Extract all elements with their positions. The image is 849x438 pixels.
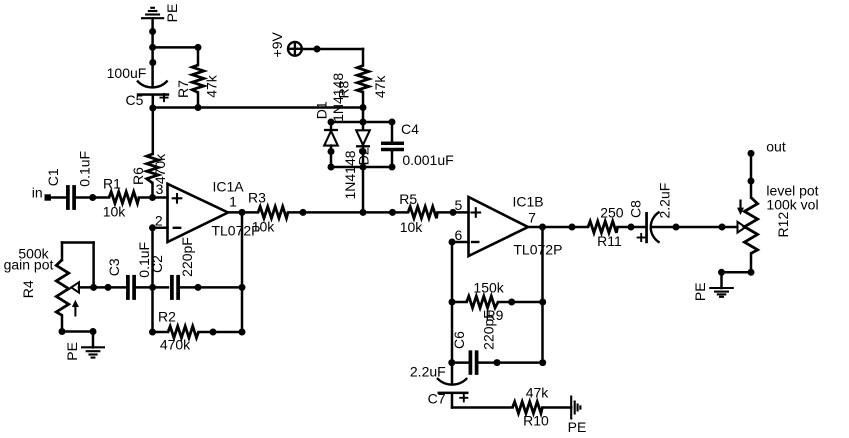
svg-text:250: 250 [600, 205, 624, 221]
svg-text:C1: C1 [45, 168, 61, 186]
svg-text:47k: 47k [372, 75, 388, 99]
svg-text:PE: PE [568, 419, 587, 435]
svg-text:+9V: +9V [269, 31, 285, 57]
svg-text:R4: R4 [20, 280, 36, 298]
svg-text:C4: C4 [401, 121, 419, 137]
svg-text:R8: R8 [335, 80, 351, 98]
svg-text:0.1uF: 0.1uF [76, 151, 92, 187]
svg-text:R3: R3 [248, 190, 266, 206]
svg-text:100uF: 100uF [107, 65, 147, 81]
svg-text:100k vol: 100k vol [766, 197, 818, 213]
svg-text:220pF: 220pF [179, 237, 195, 277]
svg-text:R6: R6 [130, 167, 146, 185]
svg-text:PE: PE [164, 4, 180, 23]
svg-text:TL072P: TL072P [513, 241, 562, 257]
svg-text:R12: R12 [775, 212, 791, 238]
svg-text:C3: C3 [106, 258, 122, 276]
svg-text:in: in [32, 184, 43, 200]
svg-text:R10: R10 [523, 412, 549, 428]
svg-text:6: 6 [455, 227, 463, 243]
svg-text:PE: PE [64, 342, 80, 361]
svg-text:IC1A: IC1A [212, 179, 244, 195]
svg-text:C6: C6 [451, 331, 467, 349]
svg-text:D1: D1 [314, 101, 330, 119]
svg-text:R2: R2 [158, 309, 176, 325]
svg-text:R7: R7 [175, 80, 191, 98]
svg-text:220pF: 220pF [481, 310, 497, 350]
svg-text:0.001uF: 0.001uF [402, 152, 453, 168]
svg-text:10k: 10k [400, 219, 424, 235]
svg-text:gain pot: gain pot [4, 256, 54, 272]
svg-text:470k: 470k [160, 336, 191, 352]
svg-text:2: 2 [155, 212, 163, 228]
svg-text:C8: C8 [628, 200, 644, 218]
svg-text:7: 7 [528, 209, 536, 225]
svg-text:IC1B: IC1B [512, 193, 543, 209]
svg-text:PE: PE [692, 282, 708, 301]
svg-text:out: out [766, 138, 786, 154]
svg-text:150k: 150k [473, 279, 504, 295]
svg-text:2.2uF: 2.2uF [410, 364, 446, 380]
svg-text:R5: R5 [399, 191, 417, 207]
svg-text:1: 1 [229, 194, 237, 210]
